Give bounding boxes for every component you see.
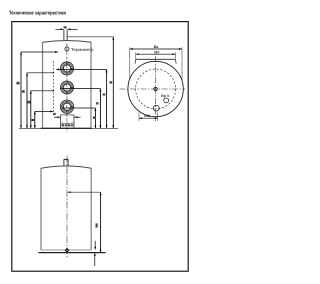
left dimension label 3 xyxy=(28,101,31,104)
svg-text:Rp ½: Rp ½ xyxy=(161,94,169,98)
tank bottom edge (side view) xyxy=(41,249,91,251)
tank top arc (front view) xyxy=(43,41,92,43)
heating element flange detail xyxy=(61,122,74,124)
dimension baseline extended (front view) xyxy=(19,127,118,129)
top pipe stub (front view) xyxy=(63,30,65,41)
extension line left ØV xyxy=(135,52,137,59)
flange 3 leader line xyxy=(60,107,95,109)
outer diameter dimension line Øa xyxy=(130,48,182,50)
top face width dimension line ØV xyxy=(136,53,176,55)
extension line right Øa xyxy=(181,47,183,80)
rear connection node 2 xyxy=(52,90,54,92)
left dimension line 3 xyxy=(30,91,32,129)
extension line at level h (side view) xyxy=(68,191,101,193)
svg-text:Технические характеристики: Технические характеристики xyxy=(9,10,66,16)
left dimension line 1 (overall height) xyxy=(20,52,22,128)
floor line (side view) xyxy=(39,252,106,254)
top stub (side view) xyxy=(63,159,65,165)
rear connections centerline (dashed, front view) xyxy=(52,61,54,113)
drain diamond marker (side view) xyxy=(65,248,68,252)
rear connection node 1 xyxy=(53,72,55,74)
right dimension line to flange 2 xyxy=(99,89,101,129)
stub-top extension line to height dimension xyxy=(67,36,113,38)
left leader at level h3 xyxy=(31,90,53,92)
svg-text:Ø55: Ø55 xyxy=(144,114,150,118)
small dimension arrows between lines 3 and 4 xyxy=(31,119,35,121)
foot height dimension lower arrow xyxy=(94,253,96,266)
housing width dimension arrows xyxy=(54,116,60,118)
bolt circle (dashed, top view) xyxy=(136,69,176,109)
right dimension label A xyxy=(110,81,113,83)
flat top face chord (top view) xyxy=(136,58,176,60)
right dimension line to stub top (overall height) xyxy=(112,37,114,129)
vertical centerline (side view) xyxy=(66,156,68,258)
thermometer circle xyxy=(65,47,69,51)
right dimension line to flange 3 xyxy=(94,108,96,128)
right dimension line to flange 1 xyxy=(106,69,108,128)
tank top arc (side view) xyxy=(41,166,91,168)
side port circle (top view) xyxy=(164,98,169,103)
drawing frame border xyxy=(12,22,188,272)
right dimension label C xyxy=(96,102,99,104)
flange circle 3 (front view) xyxy=(60,100,73,113)
flange circle 2 (front view) xyxy=(61,81,74,94)
right dimension label B xyxy=(103,93,106,95)
tank left wall (front view) xyxy=(42,42,44,128)
bottom port circle (top view) xyxy=(153,105,159,111)
dimension line h (side view) xyxy=(100,192,102,252)
right dimension label D xyxy=(93,116,96,119)
extension line right ØV xyxy=(174,52,176,59)
extension line left Øa xyxy=(129,47,131,80)
left dimension line 2 xyxy=(26,73,28,129)
vertical centerline (top view) xyxy=(155,56,157,121)
flange 1 leader line xyxy=(56,68,106,70)
tank right wall (front view) xyxy=(90,42,92,128)
dimension label h (rotated) xyxy=(96,223,98,227)
svg-text:Термометр: Термометр xyxy=(71,47,94,52)
flange 2 leader line xyxy=(60,88,100,90)
center hole (top view) xyxy=(154,87,157,90)
housing width label xyxy=(53,113,56,115)
outer tank circle (top view) xyxy=(128,61,183,116)
left dimension label 2 xyxy=(22,90,25,93)
tank left wall (side view) xyxy=(40,168,42,250)
stub diameter dimension arrows xyxy=(56,28,64,30)
chord left corner connector xyxy=(134,59,137,64)
bottom port offset dimension xyxy=(138,113,140,121)
vertical centerline (front view) xyxy=(66,44,68,133)
chord right corner connector xyxy=(174,59,177,64)
leader line to thermometer level xyxy=(21,51,58,53)
horizontal centerline (top view) xyxy=(120,88,186,90)
svg-text:ØV: ØV xyxy=(154,50,160,54)
left dimension line 4 xyxy=(34,111,36,128)
heating element housing box (front view) xyxy=(61,114,74,116)
stub thread label xyxy=(64,26,67,28)
left leader at level h2 xyxy=(27,72,53,74)
flange circle 1 (front view) xyxy=(60,62,73,75)
left dimension label 1 xyxy=(16,82,19,85)
tank bottom line (front view) xyxy=(41,127,92,129)
left leader at level h4 with arrow xyxy=(35,110,53,112)
foot height dimension upper arrow xyxy=(94,241,96,250)
tank right wall (side view) xyxy=(90,168,92,250)
